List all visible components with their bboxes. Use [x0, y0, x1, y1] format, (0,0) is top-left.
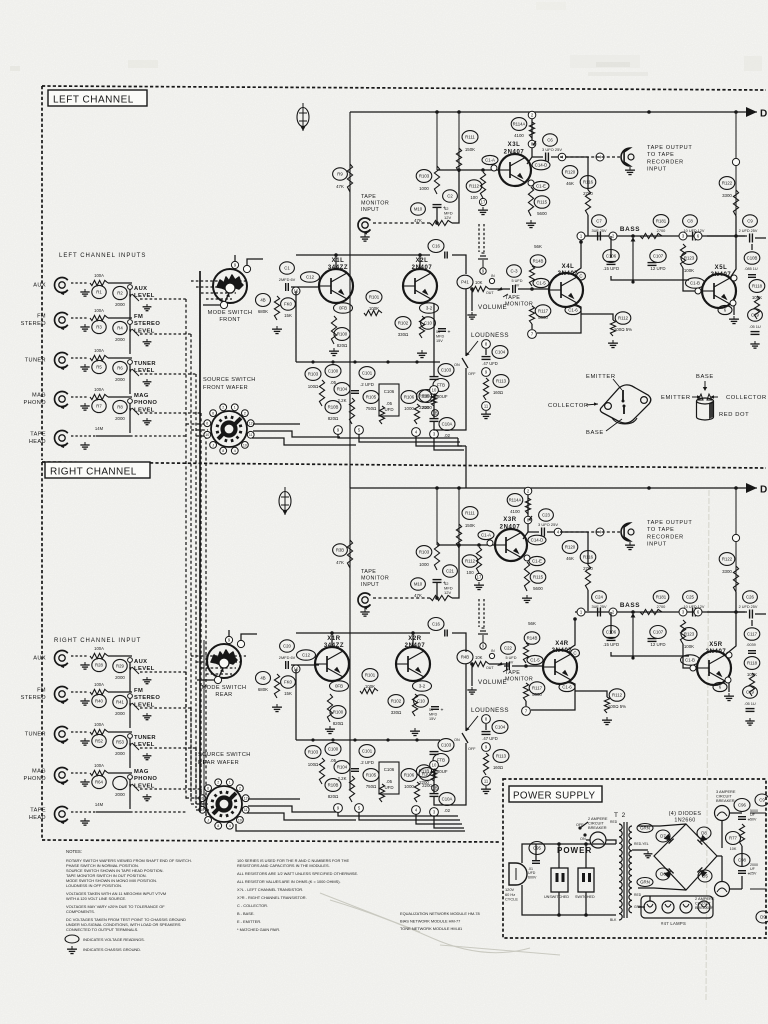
transistor X4L 2N407 — [558, 264, 579, 277]
power supply dashed border — [503, 779, 766, 938]
capacitor C1 symbol — [286, 661, 289, 669]
svg-text:RESISTORS AND CAPACITORS IN TH: RESISTORS AND CAPACITORS IN THE MODULES. — [237, 863, 330, 868]
level label — [134, 688, 160, 708]
svg-text:RED: RED — [634, 893, 642, 897]
level trim resistor R1 — [92, 285, 106, 298]
svg-text:1: 1 — [229, 781, 231, 785]
svg-text:12 UFD: 12 UFD — [650, 266, 665, 271]
tape monitor jack ground — [360, 609, 369, 616]
svg-text:FM: FM — [37, 314, 46, 320]
rail D arrow — [745, 483, 767, 496]
output wires right edge — [741, 846, 743, 866]
bridge output wire — [717, 855, 722, 857]
svg-text:C: C — [579, 274, 582, 279]
level pot wiper — [129, 329, 139, 336]
X2 emitter network R102 330 — [395, 317, 411, 337]
loudness terminal 11 — [482, 402, 491, 411]
svg-text:R115: R115 — [537, 200, 548, 205]
AC line label — [505, 887, 518, 902]
svg-text:TAPE: TAPE — [361, 569, 376, 575]
X5 base wire — [683, 656, 698, 668]
X4 emitter resistor R117 5600 — [535, 305, 551, 320]
svg-text:4: 4 — [234, 449, 236, 453]
svg-text:46K: 46K — [566, 181, 574, 186]
equalization resistor R106 1000 — [401, 769, 417, 789]
X2 collector wire up — [419, 255, 421, 269]
equalization resistor R107 2200 — [419, 768, 435, 788]
jack to level dashed lead — [71, 396, 88, 398]
signal bus dashed vertical 2 — [190, 708, 192, 798]
source switch label — [198, 752, 251, 766]
svg-text:D7: D7 — [660, 834, 666, 839]
svg-text:C: C — [573, 651, 576, 656]
svg-text:C26: C26 — [746, 595, 754, 600]
svg-text:* MATCHED GAIN PAIR.: * MATCHED GAIN PAIR. — [237, 927, 280, 932]
tone row wire off page — [707, 611, 747, 613]
svg-text:C1-E: C1-E — [536, 184, 546, 189]
svg-text:X3L: X3L — [508, 142, 521, 148]
svg-text:C117: C117 — [747, 632, 758, 637]
svg-text:11: 11 — [484, 779, 489, 784]
svg-text:.05: .05 — [386, 401, 393, 406]
pilot lamp box — [641, 896, 713, 918]
svg-text:D6: D6 — [660, 872, 666, 877]
equalization capacitor C101 — [359, 367, 375, 387]
svg-text:4100: 4100 — [510, 509, 520, 514]
svg-text:2000: 2000 — [115, 675, 125, 680]
X3 base terminal — [487, 540, 493, 546]
svg-text:VOLUME: VOLUME — [478, 679, 507, 686]
svg-text:100K: 100K — [747, 672, 757, 677]
svg-text:C12: C12 — [302, 653, 311, 658]
inter-row link wire — [129, 779, 131, 809]
tone junction 3 — [679, 232, 687, 240]
lead callout C1B — [681, 655, 700, 665]
svg-text:R181: R181 — [656, 219, 667, 224]
svg-text:R14B: R14B — [533, 259, 544, 264]
svg-text:MAG: MAG — [32, 769, 46, 775]
collector arrow — [523, 516, 532, 539]
lead callout C1-A base — [482, 155, 498, 164]
R116 lower wire to tone row — [587, 590, 589, 611]
dashed signal line to source switch bus — [140, 788, 201, 790]
module bottom bus wire — [296, 361, 440, 363]
svg-text:C7: C7 — [596, 219, 602, 224]
svg-text:TUNER: TUNER — [25, 358, 46, 364]
svg-text:C10A: C10A — [442, 797, 453, 802]
level pot ground — [143, 677, 152, 684]
tone row source junction — [577, 232, 585, 240]
svg-text:C9: C9 — [747, 219, 753, 224]
bus solid vertical second — [203, 640, 205, 810]
X1 emitter resistor R100 820 — [330, 706, 346, 726]
inter-row link wire — [129, 738, 131, 768]
svg-text:LOUDNESS: LOUDNESS — [471, 332, 509, 339]
svg-text:C100: C100 — [328, 369, 339, 374]
tone row source junction — [577, 608, 585, 616]
feedback resistor R101 100K — [362, 669, 378, 689]
base resistor R112 100 — [462, 555, 478, 575]
svg-text:50V: 50V — [750, 817, 757, 821]
svg-text:47K: 47K — [414, 218, 422, 223]
capacitor FTB — [433, 754, 449, 775]
base resistor ground — [478, 207, 488, 215]
svg-text:C16: C16 — [432, 622, 440, 627]
svg-text:5 UFD: 5 UFD — [506, 656, 517, 660]
svg-text:FRONT: FRONT — [219, 317, 240, 323]
svg-text:RED-YEL: RED-YEL — [634, 842, 649, 846]
svg-text:BASE: BASE — [586, 430, 604, 436]
X4 emitter loop wire — [537, 304, 581, 333]
input jack J3L TUNER — [25, 358, 46, 364]
rail drop to R103A — [436, 112, 438, 170]
resistor R77 10K — [726, 832, 741, 845]
module top rail wire — [296, 632, 430, 634]
lead callout C1-E — [529, 556, 545, 565]
TO-3 emitter pin — [586, 374, 625, 403]
series resistor 100K — [90, 729, 108, 734]
terminal on right drop — [732, 534, 739, 541]
svg-text:15K: 15K — [284, 691, 292, 696]
svg-text:OUT: OUT — [486, 666, 494, 670]
svg-text:CONNECTED TO OUTPUT TERMINALS.: CONNECTED TO OUTPUT TERMINALS. — [66, 927, 138, 932]
svg-text:C1-5: C1-5 — [530, 658, 540, 663]
notes paragraph 2 — [66, 891, 166, 901]
series resistor 100K — [90, 770, 108, 775]
source switch rear wafer — [199, 779, 249, 829]
svg-text:R120: R120 — [565, 170, 576, 175]
svg-text:MAG: MAG — [134, 393, 149, 399]
X4 base junction — [524, 664, 528, 668]
svg-text:X4L: X4L — [562, 264, 575, 270]
svg-text:680K: 680K — [258, 687, 268, 692]
svg-text:R7: R7 — [96, 404, 102, 409]
fuse branch wires — [535, 844, 537, 860]
svg-text:R103: R103 — [419, 550, 430, 555]
dashed signal line to source switch bus — [140, 671, 186, 673]
bus into source switch wafer — [186, 797, 208, 799]
svg-text:4B: 4B — [260, 676, 265, 681]
svg-text:MODE SWITCH: MODE SWITCH — [202, 685, 247, 691]
svg-text:RECORDER: RECORDER — [647, 534, 684, 540]
signal bus dashed vertical 5 — [205, 812, 207, 816]
svg-text:46K: 46K — [566, 556, 574, 561]
level node wire — [108, 396, 132, 398]
diode callout D5 — [698, 870, 712, 882]
bridge diode 3 — [664, 868, 674, 878]
loudness C103 branch — [438, 739, 454, 752]
wire C6 to terminal 4 — [528, 531, 539, 533]
level label — [134, 393, 157, 413]
svg-text:R101: R101 — [365, 673, 376, 678]
tone junction 2 — [609, 608, 617, 616]
svg-text:10: 10 — [205, 433, 209, 437]
BASS pot wiper — [631, 234, 635, 238]
jack ground — [80, 779, 89, 786]
capacitor C16 — [428, 618, 444, 631]
svg-text:D5: D5 — [702, 874, 708, 879]
tone capacitor C7 callout — [592, 215, 607, 227]
transistor X1R 344ZZ — [324, 636, 344, 649]
svg-text:12 UFD: 12 UFD — [650, 642, 665, 647]
svg-text:1B: 1B — [432, 411, 437, 416]
R116 lower wire to tone row — [587, 215, 589, 236]
bypass capacitor C10 50MFD — [414, 695, 429, 707]
svg-text:GRN: GRN — [640, 880, 650, 885]
svg-text:330Ω: 330Ω — [391, 710, 402, 715]
svg-text:10 UFD 12V: 10 UFD 12V — [684, 229, 705, 233]
tape monitor switch label — [505, 295, 533, 308]
svg-text:LEVEL: LEVEL — [134, 742, 155, 748]
collector terminal 8 — [524, 516, 532, 524]
svg-text:R3B: R3B — [336, 548, 344, 553]
volume to loudness wire — [465, 664, 467, 731]
resistor R116 2700 — [580, 176, 596, 196]
svg-text:R114A: R114A — [513, 122, 526, 127]
svg-text:C107: C107 — [653, 254, 664, 259]
X3 emitter terminal — [524, 555, 530, 561]
svg-text:C10: C10 — [424, 321, 432, 326]
lamp wire — [638, 906, 645, 908]
svg-text:100A: 100A — [94, 348, 104, 353]
svg-text:C100: C100 — [328, 747, 339, 752]
emitter resistor R115 5600 — [530, 571, 546, 591]
svg-text:2: 2 — [217, 781, 219, 785]
TO-3 collector pin — [548, 402, 598, 409]
mode switch terminals — [225, 636, 232, 643]
coupling capacitor C6 — [543, 134, 558, 146]
svg-text:TO TAPE: TO TAPE — [647, 527, 675, 533]
volume pot P41 — [457, 275, 473, 289]
staircase to right channel umbilical — [465, 446, 467, 488]
mode switch lead wires — [234, 255, 236, 261]
svg-text:5600: 5600 — [537, 211, 547, 216]
left channel border left edge — [41, 86, 43, 460]
svg-text:AUX: AUX — [33, 283, 46, 289]
bus into source switch wafer — [186, 423, 208, 425]
svg-text:EMITTER: EMITTER — [586, 374, 616, 380]
svg-text:TONE NETWORK MODULE HM-81: TONE NETWORK MODULE HM-81 — [400, 926, 462, 931]
X3 emitter terminal — [528, 180, 534, 186]
svg-text:100Ω 5%: 100Ω 5% — [608, 704, 626, 709]
svg-text:R120: R120 — [565, 545, 576, 550]
svg-text:STEREO: STEREO — [21, 321, 47, 327]
svg-text:R111: R111 — [465, 135, 475, 140]
svg-text:R102: R102 — [398, 321, 409, 326]
svg-text:LEVEL: LEVEL — [134, 368, 155, 374]
lamp bus wire — [649, 896, 651, 901]
tape output branch terminal — [596, 528, 604, 536]
capacitor C10A — [439, 793, 455, 813]
svg-text:2000: 2000 — [115, 302, 125, 307]
resistor 4B 680K — [256, 294, 271, 315]
diode callout D8 — [697, 827, 711, 839]
level trim resistor R29 — [113, 659, 127, 680]
equalization resistor R106 1000 — [401, 391, 417, 411]
jack ground — [80, 364, 89, 371]
svg-text:6: 6 — [212, 412, 214, 416]
svg-text:C23: C23 — [542, 513, 550, 518]
tape head lead wire — [71, 435, 96, 437]
chassis ground symbol — [67, 946, 141, 954]
phase switch oval — [297, 103, 309, 131]
pilot lamp 1 — [644, 901, 656, 913]
svg-text:LEFT CHANNEL INPUTS: LEFT CHANNEL INPUTS — [59, 253, 146, 259]
emitter resistor R118 100K — [744, 657, 760, 677]
input jack J2R FM STEREO — [21, 688, 47, 701]
shunt capacitor C107 — [650, 626, 666, 648]
svg-text:FRONT WAFER: FRONT WAFER — [203, 385, 248, 391]
svg-text:10K: 10K — [475, 655, 483, 660]
base resistor ground — [474, 582, 484, 590]
module terminal 4 — [412, 806, 421, 815]
svg-text:10: 10 — [238, 818, 242, 822]
svg-text:WITH A 120 VOLT LINE SOURCE.: WITH A 120 VOLT LINE SOURCE. — [66, 896, 126, 901]
input jack J1R AUX — [33, 656, 46, 662]
svg-text:C101: C101 — [362, 371, 373, 376]
emitter bypass R112A 100 — [608, 689, 626, 709]
svg-text:X4R: X4R — [555, 641, 569, 647]
svg-text:150K: 150K — [465, 147, 475, 152]
jack ground — [80, 662, 89, 669]
svg-text:ON: ON — [454, 738, 460, 742]
rail junction dot — [647, 110, 651, 114]
svg-text:X1L: X1L — [332, 258, 345, 264]
transformer T2 primary winding — [619, 824, 622, 920]
X4 emitter resistor R117 5600 — [529, 682, 545, 697]
terminal 9 above volume — [480, 643, 486, 649]
svg-text:0FB: 0FB — [339, 306, 347, 311]
source switch front wafer — [204, 404, 254, 454]
tape output jack — [621, 148, 634, 166]
collector resistor R114A 4100 — [511, 118, 527, 138]
svg-text:2000: 2000 — [115, 711, 125, 716]
tone row wire — [575, 611, 745, 613]
svg-text:R28: R28 — [95, 663, 103, 668]
svg-text:R113: R113 — [496, 379, 507, 384]
transistor X5R 2N407 — [706, 642, 727, 655]
base resistor R112 100 — [466, 180, 482, 200]
svg-text:R112: R112 — [469, 184, 480, 189]
svg-text:.05 1U: .05 1U — [749, 324, 761, 329]
svg-text:T 2: T 2 — [614, 812, 626, 819]
svg-text:6: 6 — [206, 422, 208, 426]
shunt capacitor C106A — [603, 250, 619, 272]
wafer bottom wire — [236, 824, 465, 831]
loudness capacitor C104 — [492, 346, 508, 359]
svg-text:MODE SWITCH: MODE SWITCH — [208, 310, 253, 316]
module right edge wire to volume — [452, 255, 466, 274]
tone junction 6 — [694, 608, 702, 616]
signal bus dashed vertical 3 — [195, 748, 197, 804]
svg-text:15V: 15V — [429, 717, 436, 721]
LEFT CHANNEL title box — [48, 90, 147, 106]
jack to level dashed lead — [71, 772, 88, 774]
lead callout C1-E — [533, 181, 549, 190]
wire R111 to X3 base — [459, 545, 495, 548]
resistor 4B 680K — [256, 672, 271, 693]
svg-text:X2R: X2R — [408, 636, 422, 642]
svg-text:RIGHT CHANNEL: RIGHT CHANNEL — [50, 467, 137, 478]
svg-text:12V: 12V — [444, 590, 451, 595]
module bottom bus wire — [296, 739, 440, 741]
svg-text:C1-6: C1-6 — [562, 685, 572, 690]
svg-text:INPUT: INPUT — [361, 582, 379, 588]
junction terminal 16 — [292, 287, 300, 295]
svg-text:C10B: C10B — [747, 256, 758, 261]
svg-text:R103: R103 — [308, 750, 319, 755]
series resistor 100K — [90, 355, 108, 360]
lead callout C1B — [686, 278, 705, 288]
svg-text:#47 LAMPS: #47 LAMPS — [661, 921, 686, 926]
svg-text:R102: R102 — [391, 699, 402, 704]
svg-text:100A: 100A — [94, 273, 104, 278]
capacitor C19 — [743, 686, 758, 698]
equalization capacitor C100 — [325, 365, 341, 385]
svg-text:C104: C104 — [495, 350, 506, 355]
X5 emitter wire to ground — [730, 300, 736, 306]
equalization capacitor C101 — [359, 745, 375, 765]
svg-text:5600: 5600 — [533, 586, 543, 591]
mode switch terminals — [231, 261, 238, 268]
inter-row link wire — [129, 364, 131, 394]
loudness resistor R113 160 — [493, 750, 509, 763]
svg-text:R100: R100 — [337, 332, 348, 337]
svg-text:3300: 3300 — [722, 569, 732, 574]
2 ampere breaker lower label — [695, 896, 715, 910]
svg-text:150K: 150K — [465, 523, 475, 528]
equalization resistor R104 — [334, 383, 350, 403]
svg-text:J: J — [207, 818, 209, 822]
svg-text:EQUALIZATION NETWORK MODULE HM: EQUALIZATION NETWORK MODULE HM-78 — [400, 911, 480, 916]
svg-text:R10B: R10B — [328, 405, 339, 410]
notes heading — [66, 849, 82, 854]
svg-text:COMPONENTS.: COMPONENTS. — [66, 909, 95, 914]
level trim resistor — [113, 776, 127, 797]
lead callout 6 — [718, 305, 732, 314]
module top rail wire — [296, 254, 430, 256]
tape monitor switch contact arrow — [497, 662, 508, 672]
svg-text:.05 1U: .05 1U — [744, 701, 756, 706]
wafer output wires to module — [248, 798, 300, 800]
tape output jack — [621, 523, 634, 541]
svg-text:R3: R3 — [96, 325, 102, 330]
svg-text:MONITOR: MONITOR — [505, 302, 533, 308]
svg-text:R14B: R14B — [527, 636, 538, 641]
svg-text:100: 100 — [466, 570, 474, 575]
svg-text:.15 UFD: .15 UFD — [603, 266, 619, 271]
svg-text:INDICATES VOLTAGE READINGS.: INDICATES VOLTAGE READINGS. — [83, 937, 145, 942]
module ground — [272, 704, 282, 712]
level pot wiper — [129, 408, 139, 415]
svg-text:COLLECTOR: COLLECTOR — [726, 395, 767, 401]
svg-text:56K: 56K — [534, 244, 542, 249]
terminal 10 — [430, 761, 439, 770]
POWER switch label — [557, 846, 592, 855]
loudness resistor R113 160 — [493, 375, 509, 388]
svg-text:2700: 2700 — [583, 566, 593, 571]
svg-text:C6: C6 — [547, 138, 553, 143]
svg-text:R105: R105 — [366, 395, 377, 400]
X4 base junction — [530, 287, 534, 291]
svg-text:LEVEL: LEVEL — [134, 666, 155, 672]
filter capacitor C98 — [734, 854, 750, 867]
bridge rectifier diamond — [654, 824, 717, 890]
svg-text:HEAD: HEAD — [29, 815, 46, 821]
svg-text:R53: R53 — [116, 740, 124, 745]
svg-text:.02: .02 — [444, 808, 451, 813]
svg-text:STEREO: STEREO — [134, 321, 160, 327]
